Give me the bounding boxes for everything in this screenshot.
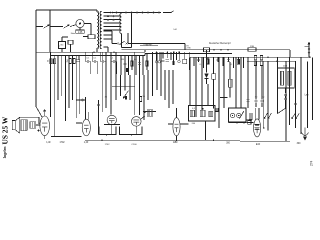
wire: [105, 62, 107, 75]
junction: [77, 55, 79, 57]
wire: [135, 56, 137, 76]
wire: [110, 52, 112, 61]
capacitor: [246, 100, 249, 101]
capacitor: [85, 60, 90, 63]
resistor: [260, 55, 262, 59]
wire: [104, 124, 120, 126]
wire: [111, 125, 113, 135]
oscillator coil: [228, 79, 232, 87]
wire: [85, 139, 240, 141]
coil circle: [237, 113, 241, 117]
wire: [228, 57, 230, 62]
wire: [176, 108, 178, 118]
wire: [173, 52, 175, 61]
rail wire B2: [145, 52, 232, 54]
loudspeaker: [12, 117, 20, 133]
wire: [107, 47, 109, 52]
wire: [128, 43, 185, 45]
electrolytic capacitor: [172, 61, 174, 65]
wire: [143, 75, 145, 120]
resistor: [69, 59, 71, 64]
diode: [204, 73, 208, 78]
wire: [156, 52, 158, 60]
switch blade: [119, 41, 124, 45]
wire: [128, 56, 130, 76]
wire: [50, 52, 52, 117]
wire: [220, 97, 228, 99]
dial lamp filament dot: [79, 23, 81, 25]
wire: [285, 88, 287, 141]
wire: [235, 57, 237, 108]
junction: [131, 134, 133, 136]
tube V4: [132, 117, 142, 127]
svg-text:1762: 1762: [105, 144, 111, 146]
wire: [307, 61, 309, 128]
junction: [167, 51, 169, 53]
wire: [158, 52, 160, 60]
resistor: [254, 61, 256, 65]
wire: [229, 62, 231, 79]
tap wire 5: [104, 26, 122, 28]
junction: [236, 122, 238, 124]
wire: [238, 57, 240, 64]
svg-text:Netz: Netz: [71, 32, 76, 35]
wire: [84, 23, 91, 25]
wire: [203, 57, 205, 68]
fuse switch Sa: [44, 25, 50, 29]
wire: [44, 136, 46, 139]
resistor: [260, 61, 262, 65]
tap wire 2: [104, 15, 122, 17]
wire: [131, 13, 133, 48]
wire: [68, 56, 70, 109]
svg-text:1,05: 1,05: [78, 32, 83, 34]
wire: [53, 56, 55, 137]
junction: [173, 51, 175, 53]
wire: [127, 33, 129, 44]
svg-text:EBF: EBF: [173, 142, 178, 144]
wire: [168, 123, 173, 125]
wire: [151, 52, 153, 70]
resistor: [53, 59, 55, 64]
wire: [44, 109, 46, 116]
IF coil: [209, 111, 213, 116]
wire: [312, 57, 314, 120]
junction: [232, 115, 233, 116]
IF coil: [288, 71, 291, 85]
coil circle: [230, 113, 234, 117]
HT wire: [122, 49, 291, 51]
earth symbol: [302, 128, 309, 140]
wire: [184, 52, 186, 59]
capacitor: [166, 60, 169, 61]
selector wire: [164, 12, 172, 14]
capacitor: [260, 100, 263, 101]
wire: [166, 52, 168, 58]
IF transformer can: [278, 68, 295, 88]
wire: [140, 45, 158, 47]
wire: [285, 100, 287, 108]
svg-text:1,4F: 1,4F: [84, 142, 89, 144]
junction: [152, 111, 154, 113]
wire: [90, 62, 92, 75]
junction: [213, 139, 215, 141]
wire: [76, 99, 85, 101]
wire: [134, 52, 136, 115]
capacitor: [294, 103, 297, 104]
wire: [101, 52, 103, 112]
wire: [223, 57, 225, 108]
antenna terminal: [308, 52, 310, 54]
wire: [115, 52, 117, 100]
wire: [146, 53, 148, 70]
wire: [57, 56, 59, 101]
tube V5: [173, 118, 180, 136]
wiper wire: [240, 111, 244, 119]
wire: [84, 52, 86, 61]
transformer core: [97, 11, 99, 49]
wire: [160, 52, 162, 96]
junction: [213, 49, 215, 51]
wire: [215, 109, 219, 111]
wire: [77, 56, 79, 60]
wire: [267, 61, 269, 130]
wire: [139, 68, 141, 115]
wire: [206, 50, 208, 73]
svg-text:C200: C200: [131, 144, 137, 146]
wire: [110, 52, 112, 114]
capacitor: [216, 60, 219, 61]
tap terminal: [113, 19, 115, 21]
svg-text:27B: 27B: [187, 47, 191, 49]
selector contact: [136, 12, 138, 14]
junction: [267, 129, 269, 131]
wire: [176, 136, 178, 141]
selector terminal: [131, 12, 133, 14]
resistor box: [212, 74, 216, 80]
wire: [112, 43, 117, 45]
capacitor: [77, 60, 80, 61]
junction: [144, 112, 146, 114]
wire: [112, 85, 135, 87]
capacitor: [92, 60, 97, 63]
wire: [83, 36, 88, 38]
wire: [258, 108, 260, 120]
wire: [61, 49, 63, 53]
junction: [276, 61, 278, 63]
resistor box: [204, 48, 210, 52]
selector wire: [104, 12, 161, 14]
wire: [213, 68, 215, 74]
wire: [164, 70, 166, 100]
wire: [243, 57, 245, 68]
wire: [121, 34, 123, 48]
wire: [104, 46, 109, 48]
junction: [221, 97, 223, 99]
wiper arrow: [264, 113, 268, 119]
wire: [170, 52, 172, 60]
svg-text:Ingelen: Ingelen: [3, 146, 7, 159]
terminal: [155, 61, 157, 63]
svg-text:US 25 W: US 25 W: [0, 116, 9, 144]
wire: [99, 52, 101, 61]
switch terminal: [117, 43, 119, 45]
wire: [246, 119, 252, 121]
tap contact: [107, 19, 109, 21]
resistor: [73, 59, 75, 64]
junction: [93, 51, 95, 53]
wire: [285, 88, 287, 93]
wire: [20, 116, 39, 118]
junction: [85, 99, 87, 101]
electrolytic capacitor: [125, 96, 127, 100]
wire: [162, 52, 164, 58]
junction: [218, 109, 220, 111]
wire: [122, 47, 132, 49]
antenna wire: [308, 44, 310, 57]
coil: [249, 114, 252, 119]
wire: [152, 52, 154, 96]
wire: [195, 57, 197, 117]
junction: [145, 111, 147, 113]
resistor box: [248, 48, 256, 52]
wire: [129, 75, 131, 100]
svg-text:274: 274: [310, 160, 314, 166]
wire: [135, 126, 137, 134]
wire: [147, 70, 149, 100]
wire: [72, 56, 74, 101]
wire: [141, 116, 145, 119]
selector contact: [111, 12, 113, 14]
junction: [263, 127, 265, 129]
junction: [178, 51, 180, 53]
resistor: [140, 97, 142, 102]
cathode loop wire: [99, 127, 116, 135]
IF coil: [200, 110, 205, 116]
diode cathode bar: [204, 78, 208, 80]
wire: [180, 123, 188, 125]
wire: [36, 26, 43, 28]
junction: [267, 57, 269, 59]
wire: [213, 79, 215, 86]
wire: [98, 100, 100, 135]
terminal: [178, 60, 181, 63]
wire: [240, 57, 242, 108]
wire: [233, 57, 235, 68]
wire: [217, 57, 219, 62]
wire: [156, 52, 158, 90]
lower tap wire 3: [104, 38, 113, 40]
capacitor: [284, 99, 287, 100]
svg-text:3W: 3W: [67, 59, 69, 62]
junction: [220, 49, 222, 51]
cathode loop wire: [120, 127, 143, 135]
svg-text:2M: 2M: [121, 59, 124, 61]
wire: [247, 57, 249, 108]
frame left wire: [35, 10, 37, 107]
wire: [201, 57, 203, 110]
wire: [61, 56, 63, 97]
wire: [305, 45, 310, 47]
svg-text:Lsp: Lsp: [305, 94, 310, 97]
lower tap wire 1: [104, 30, 113, 32]
wire: [120, 56, 122, 76]
transformer core line: [26, 120, 28, 131]
electrolytic capacitor: [126, 68, 128, 72]
wiper arrow: [296, 113, 300, 119]
wire: [206, 79, 208, 85]
wire: [184, 44, 186, 50]
tube V2: [82, 119, 90, 136]
wire: [79, 28, 81, 30]
wire: [218, 57, 220, 128]
selector contact: [147, 12, 149, 14]
wire: [254, 108, 256, 120]
terminal: [158, 61, 160, 63]
terminal: [81, 99, 83, 101]
selector terminal: [142, 12, 144, 14]
transformer secondary winding: [100, 12, 102, 49]
junction: [227, 49, 229, 51]
junction: [38, 130, 40, 132]
junction: [106, 134, 108, 136]
resistor: [237, 59, 239, 64]
junction: [309, 57, 311, 59]
IF coil: [280, 71, 283, 85]
wire: [91, 52, 93, 61]
capacitor: [138, 63, 141, 64]
selector junction: [163, 12, 165, 14]
resistor box: [183, 59, 187, 64]
resistor: [248, 121, 251, 124]
tube V3: [107, 115, 116, 124]
junction: [113, 51, 115, 53]
wire: [90, 24, 92, 35]
rail step wire: [144, 50, 146, 52]
wire: [285, 61, 287, 108]
wire: [289, 57, 291, 125]
svg-text:E4F: E4F: [256, 144, 261, 146]
resistor: [207, 59, 209, 64]
svg-text:1702: 1702: [59, 142, 65, 144]
wire: [172, 70, 174, 104]
resistor: [254, 55, 256, 59]
rail wire B: [50, 55, 145, 57]
junction: [202, 108, 203, 109]
wire: [189, 57, 191, 105]
trimmer box: [215, 108, 218, 111]
tube V1 output pentode: [40, 116, 50, 136]
wire: [300, 57, 302, 134]
capacitor: [161, 61, 164, 62]
wire: [36, 124, 41, 126]
svg-text:1,4F: 1,4F: [46, 142, 51, 144]
capacitor: [111, 60, 116, 63]
capacitor: [284, 94, 287, 95]
wire: [79, 56, 81, 115]
junction: [101, 139, 103, 141]
wire: [261, 103, 263, 108]
wire: [205, 121, 207, 140]
wire: [51, 136, 82, 138]
wire: [139, 56, 141, 69]
wire: [207, 57, 209, 64]
selector blade: [171, 11, 174, 13]
resistor: [146, 61, 148, 66]
junction: [238, 115, 239, 116]
wire: [207, 84, 209, 106]
capacitor: [197, 60, 200, 61]
wire: [247, 122, 254, 124]
wire to output tube grid: [36, 107, 42, 118]
rail wire C: [190, 56, 310, 58]
wire: [62, 36, 68, 38]
wire: [176, 52, 178, 60]
wire: [277, 57, 279, 113]
tap wire 3: [104, 19, 122, 21]
wire: [38, 117, 40, 124]
wiper arrow: [268, 113, 272, 119]
wire: [70, 44, 72, 52]
wire: [96, 10, 98, 12]
junction: [149, 111, 151, 113]
mains plug box: [59, 42, 66, 49]
resistor: [131, 61, 133, 66]
capacitor: [254, 100, 257, 101]
tap contact: [107, 15, 109, 17]
IF transformer block: [229, 108, 247, 122]
wire: [65, 56, 67, 122]
wire: [49, 10, 51, 52]
junction: [44, 110, 46, 112]
wire: [105, 52, 107, 108]
output transformer: [21, 120, 27, 131]
top wire: [36, 9, 97, 11]
junction: [129, 85, 131, 87]
junction: [243, 122, 245, 124]
rail step wire: [144, 53, 146, 55]
wire: [295, 61, 297, 128]
IF transformer block: [189, 106, 216, 122]
tap wire 1: [104, 12, 122, 14]
selector contact: [125, 12, 127, 14]
slant wire: [278, 108, 287, 114]
tap wire 6: [104, 29, 122, 31]
mains switch box: [88, 35, 95, 39]
lamp label box: [76, 30, 85, 33]
svg-text:29B: 29B: [250, 46, 254, 48]
wiper arrow: [292, 113, 296, 119]
wire: [229, 122, 249, 124]
tube V6 rectifier: [254, 119, 261, 137]
resistor: [50, 59, 52, 64]
capacitor: [43, 110, 46, 111]
capacitor: [227, 60, 230, 61]
selector contact: [158, 12, 160, 14]
transformer primary winding: [97, 12, 99, 48]
wire: [124, 68, 126, 91]
fuse switch Sb: [64, 25, 70, 29]
wire: [285, 96, 287, 98]
switch contact: [126, 43, 128, 45]
wire: [87, 112, 89, 120]
junction: [156, 51, 158, 53]
wire: [263, 61, 265, 128]
wire: [213, 57, 215, 68]
junction: [176, 139, 178, 141]
wire: [229, 87, 231, 98]
wire: [61, 37, 63, 42]
